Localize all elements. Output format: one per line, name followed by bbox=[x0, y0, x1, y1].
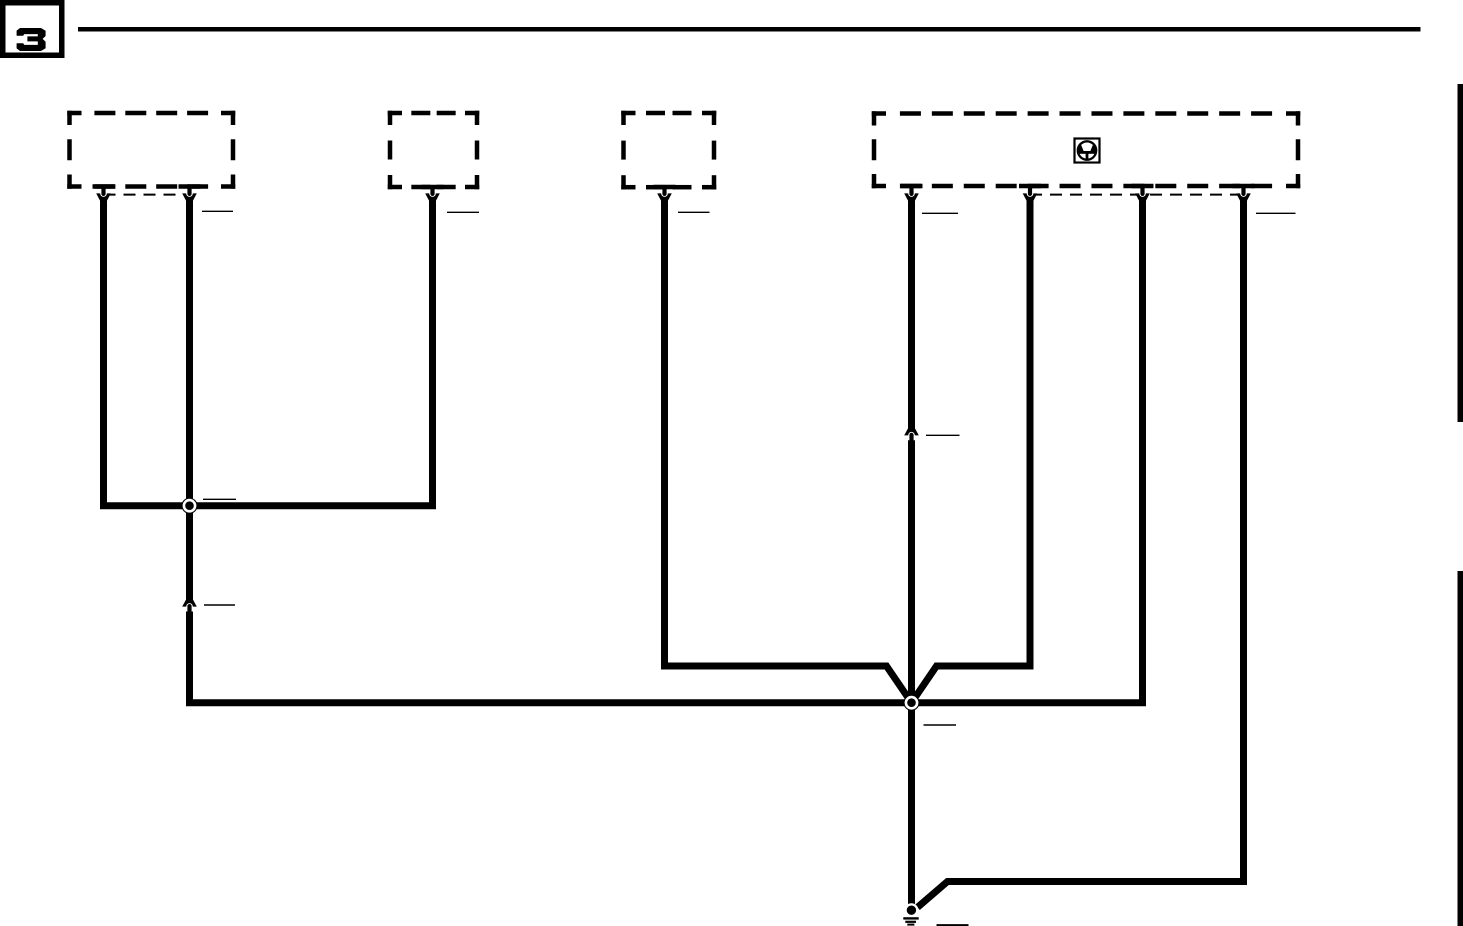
connector pin symbol at B4 pin1 bbox=[904, 188, 919, 200]
label line L2 at B2 pin bbox=[447, 211, 479, 213]
ground symbol bbox=[903, 918, 918, 924]
connector pin symbol at B2 pin bbox=[425, 189, 440, 201]
wire W6: B4 pin2 down, across, diagonal into junction J2 bbox=[912, 198, 1031, 703]
wire W2 upper: B1 pin2 down to inline connector bbox=[186, 198, 193, 601]
component box B2 (dashed) bbox=[388, 111, 480, 190]
connector pin symbol at B4 pin2 bbox=[1023, 188, 1038, 200]
right margin bar 2 bbox=[1458, 571, 1463, 926]
page number box "3" bbox=[3, 3, 62, 56]
connector strip dashed line under B1 bbox=[104, 194, 190, 196]
connector strip dashed line under B4 bbox=[1030, 194, 1244, 196]
label line L4 at B4 pin1 bbox=[922, 212, 958, 214]
label line L5 at B4 pin4 bbox=[1256, 212, 1296, 214]
connector pin symbol at B4 pin3 bbox=[1135, 188, 1150, 200]
connector pin symbol at B1 pin2 bbox=[182, 189, 197, 201]
label line L6 at junction J1 bbox=[203, 498, 236, 500]
component box B3 (dashed) bbox=[621, 111, 716, 190]
component box B1 (dashed) bbox=[67, 111, 235, 189]
label line L9 at junction J2 bbox=[924, 724, 957, 726]
wire W4: B3 pin down, across, diagonal into junction J2 bbox=[665, 198, 912, 703]
top horizontal rule bbox=[78, 27, 1421, 32]
label line L3 at B3 pin bbox=[678, 211, 710, 213]
label line L8 at inline connector IC2 bbox=[926, 434, 960, 436]
component box B4 (dashed) bbox=[872, 111, 1301, 188]
wire W2 lower: inline connector down, across bus to B4 pin3 (wire W7) bbox=[190, 198, 1143, 703]
box bottom edge dashes above pins bbox=[93, 184, 115, 189]
ground node dot bbox=[904, 903, 918, 917]
wire W5 upper: B4 pin1 down to inline connector 2 bbox=[908, 198, 915, 430]
connector pin symbol at B4 pin4 bbox=[1236, 188, 1251, 200]
junction J1 bbox=[182, 498, 198, 514]
right margin bar 1 bbox=[1458, 84, 1463, 422]
connector pin symbol at B3 pin bbox=[657, 189, 672, 201]
label line L1 at B1 pin2 bbox=[202, 210, 233, 212]
label line L10 at ground bbox=[937, 924, 969, 926]
label line L7 at inline connector IC1 bbox=[204, 604, 235, 606]
wire W8: B4 pin4 down, across, diagonal into ground node bbox=[918, 198, 1244, 907]
connector pin symbol at B1 pin1 bbox=[96, 189, 111, 201]
inline connector IC1 on wire W2 bbox=[182, 600, 197, 612]
wire W1: B1 pin1 down, across to B2 pin (wire W3) bbox=[104, 198, 433, 506]
wire W5 lower: inline connector 2 down through J2 to ground bbox=[908, 440, 915, 905]
inline connector IC2 on wire W5 bbox=[904, 428, 919, 440]
junction J2 bbox=[904, 695, 920, 711]
component icon inside B4 bbox=[1075, 139, 1100, 163]
